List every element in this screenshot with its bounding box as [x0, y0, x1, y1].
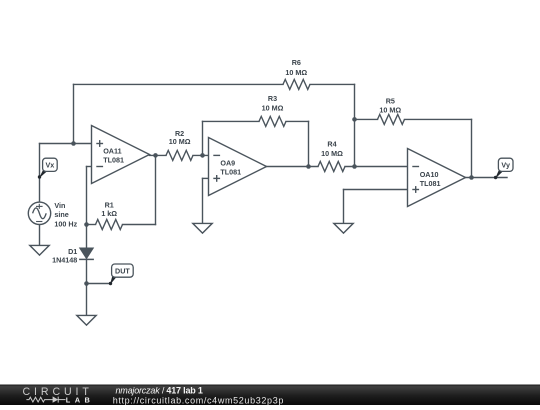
svg-text:1N4148: 1N4148: [52, 256, 77, 265]
svg-text:LAB: LAB: [66, 396, 94, 405]
svg-text:nmajorczak / 417 lab 1: nmajorczak / 417 lab 1: [116, 385, 203, 395]
svg-text:Vy: Vy: [501, 161, 510, 170]
svg-text:R3: R3: [268, 94, 277, 103]
svg-text:10 MΩ: 10 MΩ: [285, 68, 307, 77]
svg-text:DUT: DUT: [115, 266, 130, 275]
svg-text:OA9: OA9: [220, 159, 235, 168]
svg-text:10 MΩ: 10 MΩ: [262, 103, 284, 112]
svg-text:R4: R4: [327, 139, 336, 148]
svg-text:10 MΩ: 10 MΩ: [379, 106, 401, 115]
svg-text:OA10: OA10: [420, 170, 439, 179]
svg-text:OA11: OA11: [103, 146, 121, 155]
svg-text:Vin: Vin: [54, 201, 65, 210]
svg-text:R6: R6: [292, 58, 301, 67]
svg-text:Vx: Vx: [46, 161, 55, 170]
svg-text:TL081: TL081: [220, 168, 241, 177]
svg-text:TL081: TL081: [103, 155, 124, 164]
svg-text:10 MΩ: 10 MΩ: [321, 149, 343, 158]
svg-text:100 Hz: 100 Hz: [54, 219, 77, 228]
svg-text:http://circuitlab.com/c4wm52ub: http://circuitlab.com/c4wm52ub32p3p: [113, 395, 284, 405]
svg-text:sine: sine: [54, 210, 68, 219]
svg-text:10 MΩ: 10 MΩ: [169, 137, 191, 146]
svg-text:1 kΩ: 1 kΩ: [101, 209, 117, 218]
svg-text:R5: R5: [386, 97, 395, 106]
svg-text:TL081: TL081: [420, 179, 441, 188]
